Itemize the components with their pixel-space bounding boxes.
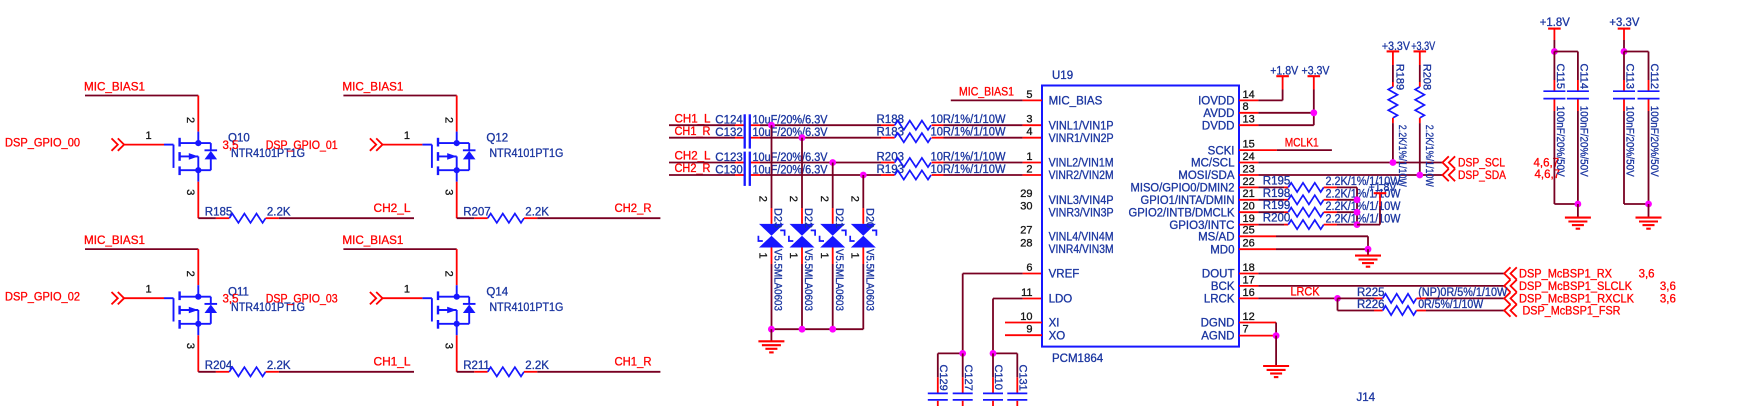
transistor Q14 NTR4101PT1G <box>422 285 563 335</box>
svg-text:17: 17 <box>1243 274 1255 286</box>
svg-text:MCLK1: MCLK1 <box>1285 138 1319 150</box>
wire LRCK pin 16 <box>1239 297 1338 299</box>
wire D23 to ground rail <box>771 248 773 330</box>
wire MC/SCL pin 24 to DSP_SCL <box>1239 162 1443 164</box>
svg-text:CH2_L: CH2_L <box>675 151 712 163</box>
svg-text:CH1_L: CH1_L <box>675 113 712 125</box>
pin 2 label Q11 <box>184 271 196 277</box>
svg-text:7: 7 <box>1243 324 1249 336</box>
svg-text:100nF/20%/50V: 100nF/20%/50V <box>1648 106 1660 178</box>
svg-text:R208: R208 <box>1420 64 1432 90</box>
net label CH2_R <box>615 203 652 215</box>
svg-text:5: 5 <box>1026 89 1032 101</box>
svg-text:20: 20 <box>1243 201 1255 213</box>
svg-text:26: 26 <box>1243 238 1255 250</box>
pin 18 DOUT <box>1202 262 1255 281</box>
node R189/SCL <box>1390 159 1397 166</box>
svg-text:V5.5MLA0603: V5.5MLA0603 <box>802 249 814 311</box>
wire drop to varistor D20 <box>862 175 864 224</box>
svg-text:DVDD: DVDD <box>1202 120 1235 132</box>
pin 3 label Q10 <box>184 189 196 195</box>
resistor R195 2.2K <box>1239 175 1401 192</box>
wire CH2_L to cap C123 <box>669 162 745 164</box>
pin 21 GPIO1/INTA/DMIN <box>1141 188 1255 207</box>
pin 12 DGND <box>1201 311 1255 330</box>
wire gate Q14 <box>383 297 423 299</box>
svg-text:PCM1864: PCM1864 <box>1052 353 1104 365</box>
capacitor C115 100nF <box>1543 52 1566 205</box>
pin 2 label Q14 <box>443 271 455 277</box>
net label MCLK1 <box>1285 138 1319 150</box>
pin 2 label D21 <box>818 196 830 202</box>
wire Q14 source down <box>457 335 488 372</box>
pin 22 MISO/GPIO0/DMIN2 <box>1131 176 1255 195</box>
svg-text:14: 14 <box>1243 89 1255 101</box>
off-page connector DSP_SCL <box>1443 156 1560 169</box>
wire R203 to IC pin <box>932 162 1042 164</box>
svg-text:D23: D23 <box>772 208 784 228</box>
svg-text:D20: D20 <box>864 208 876 228</box>
pin 3 VINL1/VIN1P <box>1026 114 1114 133</box>
svg-text:10R/1%/1/10W: 10R/1%/1/10W <box>931 114 1006 126</box>
net label DSP_GPIO_02 <box>5 291 80 303</box>
wire Q10 source down <box>198 182 229 219</box>
svg-text:DSP_McBSP1_RX: DSP_McBSP1_RX <box>1519 268 1612 280</box>
wire branch to C114 <box>1554 51 1578 53</box>
pin 10 XI <box>1020 311 1059 330</box>
svg-text:2: 2 <box>443 117 455 123</box>
svg-text:XO: XO <box>1049 330 1066 342</box>
pin 2 label Q10 <box>184 117 196 123</box>
wire D22 to ground rail <box>801 248 803 330</box>
svg-text:R198: R198 <box>1263 188 1291 200</box>
capacitor plates C123/C130 <box>745 152 750 186</box>
wire MIC_BIAS pin 5 <box>951 99 1042 101</box>
svg-text:LRCK: LRCK <box>1291 287 1320 299</box>
svg-text:11: 11 <box>1021 287 1032 299</box>
wire Q12 source down <box>457 182 488 219</box>
svg-text:27: 27 <box>1020 225 1032 237</box>
svg-text:MIC_BIAS1: MIC_BIAS1 <box>342 235 403 247</box>
svg-text:CH1_R: CH1_R <box>675 126 711 138</box>
svg-text:VREF: VREF <box>1049 269 1080 281</box>
wire jumper C131 <box>993 352 1017 354</box>
resistor R200 2.2K <box>1239 213 1401 230</box>
svg-text:R225: R225 <box>1357 287 1385 299</box>
svg-text:V5.5MLA0603: V5.5MLA0603 <box>833 249 845 311</box>
node junction on CH1_R <box>799 134 806 141</box>
wire IOVDD pin 14 <box>1239 99 1283 101</box>
wire C130 to resistor R193 <box>750 174 895 176</box>
svg-text:15: 15 <box>1243 139 1255 151</box>
varistor D21 V5.5MLA0603 <box>820 208 846 311</box>
svg-text:6: 6 <box>1026 262 1032 274</box>
pin 24 MC/SCL <box>1191 151 1255 170</box>
pin 3 label Q11 <box>184 343 196 349</box>
svg-text:R195: R195 <box>1263 175 1291 187</box>
svg-text:MS/AD: MS/AD <box>1198 232 1234 244</box>
node pullups 20 <box>1354 209 1361 216</box>
varistor D22 V5.5MLA0603 <box>789 208 815 311</box>
off-page connector DSP_McBSP1_SLCLK <box>1504 280 1676 293</box>
svg-text:C131: C131 <box>1017 365 1029 391</box>
ground (varistor rail) <box>758 329 784 352</box>
svg-text:CH2_R: CH2_R <box>615 203 652 215</box>
svg-text:DSP_McBSP1_FSR: DSP_McBSP1_FSR <box>1523 305 1621 317</box>
svg-text:1: 1 <box>146 284 152 296</box>
node pullups 19 <box>1354 221 1361 228</box>
svg-text:Q12: Q12 <box>486 133 508 145</box>
node pullups 21 <box>1354 196 1361 203</box>
ground (C112) <box>1636 204 1662 229</box>
wire XO stub <box>1005 334 1042 336</box>
capacitor C127 <box>953 353 974 406</box>
svg-text:2.2K: 2.2K <box>267 207 291 219</box>
svg-text:2.2K/1%/1/10W: 2.2K/1%/1/10W <box>1423 125 1435 187</box>
svg-text:1: 1 <box>849 253 861 259</box>
svg-text:2: 2 <box>757 196 769 202</box>
net label CH2_L (input) <box>675 151 712 163</box>
wire D20 to ground rail <box>862 248 864 330</box>
varistor D20 V5.5MLA0603 <box>850 208 876 311</box>
wire CH1_R to cap C132 <box>669 137 745 139</box>
transistor Q11 NTR4101PT1G <box>164 285 305 335</box>
svg-text:NTR4101PT1G: NTR4101PT1G <box>489 302 563 314</box>
ground (AGND) <box>1263 336 1289 378</box>
pin 15 SCKI <box>1208 139 1255 158</box>
wire R188 to IC pin <box>932 124 1042 126</box>
svg-text:3,6: 3,6 <box>1660 281 1676 293</box>
svg-text:C112: C112 <box>1648 64 1660 89</box>
pin 17 BCK <box>1211 274 1255 293</box>
svg-text:3,6: 3,6 <box>1639 268 1655 280</box>
capacitor C130 10uF label <box>715 164 828 176</box>
svg-text:CH1_L: CH1_L <box>374 357 412 369</box>
pin 30 VINR3/VIN3P <box>1020 201 1114 220</box>
resistor R226 0R <box>1338 299 1505 315</box>
varistor D23 V5.5MLA0603 <box>758 208 784 311</box>
op-amp/IC U19 PCM1864 body <box>1042 70 1239 365</box>
svg-text:V5.5MLA0603: V5.5MLA0603 <box>772 249 784 311</box>
svg-text:NTR4101PT1G: NTR4101PT1G <box>489 148 563 160</box>
wire LRCK branch down <box>1337 298 1339 310</box>
net label CH2_R (input) <box>675 163 711 175</box>
svg-text:U19: U19 <box>1052 70 1073 82</box>
pin 2 label D22 <box>787 196 799 202</box>
off-page connector DSP_SDA <box>1443 169 1561 182</box>
svg-text:3: 3 <box>184 189 196 195</box>
wire VREF pin 6 <box>963 274 1042 354</box>
resistor R225 (NP)0R <box>1338 287 1508 303</box>
svg-text:+3.3V: +3.3V <box>1609 17 1639 29</box>
pin 1 label D23 <box>757 253 769 259</box>
pin 2 label D23 <box>757 196 769 202</box>
pin 2 label D20 <box>849 196 861 202</box>
svg-text:C115: C115 <box>1554 64 1566 89</box>
net label DSP_GPIO_03 with page refs 3,5 <box>223 294 338 306</box>
svg-text:2: 2 <box>184 271 196 277</box>
resistor R203 10R <box>877 151 1006 167</box>
net label LRCK <box>1291 287 1320 299</box>
pin 9 XO <box>1026 324 1065 343</box>
wire gate Q10 <box>124 144 164 146</box>
pin 23 MOSI/SDA <box>1178 163 1254 182</box>
svg-text:V5.5MLA0603: V5.5MLA0603 <box>864 249 876 311</box>
svg-text:4: 4 <box>1026 126 1032 138</box>
wire C132 to resistor R183 <box>750 137 895 139</box>
node +1.8V split <box>1551 48 1558 55</box>
node LDO caps <box>990 350 997 357</box>
svg-text:C123: C123 <box>715 152 743 164</box>
pin 1 label D21 <box>818 253 830 259</box>
svg-text:3: 3 <box>1026 114 1032 126</box>
node ground join C114 <box>1575 201 1582 208</box>
svg-text:SCKI: SCKI <box>1208 145 1235 157</box>
node AVDD/+3.3V <box>1310 109 1317 116</box>
node VREF caps <box>959 350 966 357</box>
svg-text:CH1_R: CH1_R <box>615 357 652 369</box>
wire MIC_BIAS1 to Q11 drain <box>85 249 198 285</box>
pin 13 DVDD <box>1202 114 1255 133</box>
svg-text:R189: R189 <box>1393 64 1405 90</box>
pin 1 label Q14 <box>404 284 410 296</box>
svg-text:2: 2 <box>787 196 799 202</box>
svg-text:2.2K: 2.2K <box>267 360 291 372</box>
svg-text:1: 1 <box>818 253 830 259</box>
transistor Q10 NTR4101PT1G <box>164 132 305 182</box>
power +3.3V (AVDD/DVDD) <box>1302 65 1330 125</box>
node junction on CH2_L <box>829 159 836 166</box>
wire to CH2_L <box>266 217 414 219</box>
capacitor C129 <box>928 353 949 406</box>
pin 4 VINR1/VIN2P <box>1026 126 1114 145</box>
svg-text:0R/5%/1/10W: 0R/5%/1/10W <box>1418 299 1483 311</box>
off-page connector DSP_McBSP1_FSR <box>1504 304 1620 317</box>
wire DGND pin 12 <box>1239 323 1276 336</box>
svg-text:1: 1 <box>404 284 410 296</box>
svg-text:1: 1 <box>404 130 410 142</box>
pin 11 LDO <box>1021 287 1072 306</box>
svg-text:VINL2/VIN1M: VINL2/VIN1M <box>1049 158 1114 170</box>
pin 6 VREF <box>1026 262 1079 281</box>
resistor R207 2.2K <box>463 207 549 223</box>
net label CH1_R <box>615 357 652 369</box>
svg-text:25: 25 <box>1243 225 1255 237</box>
wire MD0 pin 26 <box>1239 248 1368 250</box>
capacitor plates C124/C132 <box>745 114 750 148</box>
resistor R211 2.2K <box>463 360 549 376</box>
power +3.3V (R208) <box>1411 41 1435 53</box>
pin 3 label Q14 <box>443 343 455 349</box>
svg-text:3,5: 3,5 <box>223 140 239 152</box>
svg-text:MIC_BIAS1: MIC_BIAS1 <box>84 235 145 247</box>
resistor R193 10R <box>877 164 1006 180</box>
net label MIC_BIAS1 (pin5) <box>959 86 1014 98</box>
wire R183 to IC pin <box>932 137 1042 139</box>
svg-text:1: 1 <box>787 253 799 259</box>
svg-text:R200: R200 <box>1263 213 1291 225</box>
wire XI stub <box>1005 322 1042 324</box>
capacitor C114 100nF <box>1567 52 1590 205</box>
wire to CH1_L <box>266 371 414 373</box>
wire MOSI/SDA pin 23 to DSP_SDA <box>1239 174 1443 176</box>
svg-text:MISO/GPIO0/DMIN2: MISO/GPIO0/DMIN2 <box>1131 183 1235 195</box>
svg-text:DSP_McBSP1_SLCLK: DSP_McBSP1_SLCLK <box>1519 281 1632 293</box>
wire CH2_R to cap C130 <box>669 174 745 176</box>
wire Q11 source down <box>198 335 229 372</box>
capacitor C112 100nF <box>1638 52 1661 205</box>
wire DOUT pin 18 to DSP_McBSP1_RX <box>1239 273 1504 275</box>
svg-text:R199: R199 <box>1263 200 1291 212</box>
svg-text:100nF/20%/50V: 100nF/20%/50V <box>1554 106 1566 178</box>
svg-text:1: 1 <box>146 130 152 142</box>
svg-text:2: 2 <box>443 271 455 277</box>
pin 8 AVDD <box>1203 101 1248 120</box>
pin 1 label D22 <box>787 253 799 259</box>
net label DSP_GPIO_00 <box>5 138 80 150</box>
pin 1 label D20 <box>849 253 861 259</box>
svg-text:16: 16 <box>1243 287 1255 299</box>
svg-text:LDO: LDO <box>1049 294 1073 306</box>
svg-text:VINR4/VIN3M: VINR4/VIN3M <box>1049 244 1114 256</box>
svg-text:+1.8V: +1.8V <box>1540 17 1570 29</box>
svg-text:DSP_SCL: DSP_SCL <box>1458 157 1506 169</box>
svg-text:2: 2 <box>1026 163 1032 175</box>
svg-text:2.2K: 2.2K <box>525 207 549 219</box>
pin 1 label Q11 <box>146 284 152 296</box>
net label DSP_GPIO_01 with page refs 3,5 <box>223 140 338 152</box>
pin 14 IOVDD <box>1198 89 1255 108</box>
svg-text:(NP)0R/5%/1/10W: (NP)0R/5%/1/10W <box>1418 287 1507 299</box>
svg-text:2.2K/1%/1/10W: 2.2K/1%/1/10W <box>1326 213 1401 225</box>
wire BCK pin 17 to DSP_McBSP1_SLCLK <box>1239 285 1504 287</box>
wire LDO pin 11 <box>993 299 1042 354</box>
wire drop to varistor D23 <box>771 125 773 224</box>
svg-text:10R/1%/1/10W: 10R/1%/1/10W <box>931 164 1006 176</box>
net label CH1_L <box>374 357 412 369</box>
svg-text:18: 18 <box>1243 262 1255 274</box>
svg-text:VINL3/VIN4P: VINL3/VIN4P <box>1049 195 1114 207</box>
wire R208 to SDA <box>1419 123 1421 175</box>
svg-text:19: 19 <box>1243 213 1255 225</box>
svg-text:12: 12 <box>1243 311 1255 323</box>
wire to CH1_R <box>524 371 660 373</box>
svg-text:2: 2 <box>849 196 861 202</box>
svg-text:MIC_BIAS1: MIC_BIAS1 <box>84 81 145 93</box>
power +3.3V (R189) <box>1382 41 1410 53</box>
node ground join C112 <box>1645 201 1652 208</box>
svg-text:2: 2 <box>818 196 830 202</box>
svg-text:R226: R226 <box>1357 299 1385 311</box>
power +3.3V (bypass C113/C112) <box>1609 17 1639 52</box>
svg-text:GPIO2/INTB/DMCLK: GPIO2/INTB/DMCLK <box>1129 207 1235 219</box>
svg-text:C114: C114 <box>1578 64 1590 89</box>
pin 5 MIC_BIAS <box>1026 89 1102 108</box>
svg-text:IOVDD: IOVDD <box>1198 96 1234 108</box>
capacitor C113 100nF <box>1613 52 1636 205</box>
resistor R204 2.2K <box>205 360 291 376</box>
svg-text:1: 1 <box>1026 151 1032 163</box>
wire to CH2_R <box>524 217 660 219</box>
wire pullup collector vertical <box>1356 187 1358 224</box>
wire gate Q11 <box>124 297 164 299</box>
wire DVDD pin 13 <box>1239 124 1314 126</box>
svg-text:GPIO1/INTA/DMIN: GPIO1/INTA/DMIN <box>1141 195 1235 207</box>
node MS/MD0 <box>1365 246 1372 253</box>
pin 1 label Q10 <box>146 130 152 142</box>
off-page connector DSP_McBSP1_RX <box>1504 267 1654 280</box>
svg-text:3: 3 <box>184 343 196 349</box>
connector label J14 <box>1357 392 1376 404</box>
svg-text:3: 3 <box>443 343 455 349</box>
svg-text:C130: C130 <box>715 164 743 176</box>
svg-text:3,6: 3,6 <box>1660 293 1676 305</box>
node AGND/DGND <box>1273 332 1280 339</box>
wire AGND pin 7 <box>1239 335 1276 337</box>
net label MIC_BIAS1 (Q10) <box>84 81 145 93</box>
resistor R199 2.2K <box>1239 200 1401 217</box>
wire drop to varistor D21 <box>832 163 834 224</box>
node junction on CH1_L <box>768 122 775 129</box>
wire C123 to resistor R203 <box>750 162 895 164</box>
pin 28 VINR4/VIN3M <box>1020 237 1113 256</box>
power +1.8V (bypass C115/C114) <box>1540 17 1570 52</box>
svg-text:R185: R185 <box>205 207 233 219</box>
resistor R185 2.2K <box>205 207 291 223</box>
wire MS/AD pin 25 <box>1239 236 1368 249</box>
svg-text:LRCK: LRCK <box>1204 294 1235 306</box>
svg-text:C132: C132 <box>715 127 743 139</box>
svg-text:DOUT: DOUT <box>1202 269 1235 281</box>
svg-text:D21: D21 <box>833 208 845 228</box>
svg-text:Q14: Q14 <box>486 286 508 298</box>
svg-text:21: 21 <box>1243 188 1255 200</box>
svg-text:24: 24 <box>1243 151 1255 163</box>
off-page connector input Q10 gate <box>112 138 125 150</box>
svg-text:DSP_McBSP1_RXCLK: DSP_McBSP1_RXCLK <box>1519 293 1634 305</box>
svg-text:22: 22 <box>1243 176 1255 188</box>
resistor R208 2.2K pullup <box>1415 51 1435 187</box>
wire jumper C129 <box>938 352 963 354</box>
svg-text:J14: J14 <box>1357 392 1376 404</box>
node R208/SDA <box>1416 172 1423 179</box>
capacitor C123 10uF label <box>715 152 828 164</box>
svg-text:8: 8 <box>1243 101 1249 113</box>
svg-text:MD0: MD0 <box>1210 244 1234 256</box>
power +1.8V (pullups) <box>1357 182 1397 224</box>
svg-text:3: 3 <box>443 189 455 195</box>
svg-text:DSP_GPIO_01: DSP_GPIO_01 <box>266 140 338 152</box>
svg-text:100nF/20%/50V: 100nF/20%/50V <box>1578 106 1590 178</box>
svg-text:29: 29 <box>1020 188 1032 200</box>
pin 1 label Q12 <box>404 130 410 142</box>
wire AVDD pin 8 <box>1239 112 1314 114</box>
wire R189 to SCL <box>1392 123 1394 162</box>
wire R193 to IC pin <box>932 174 1042 176</box>
wire bottom rail C113/C112 <box>1624 203 1649 205</box>
off-page connector input Q14 gate <box>370 292 383 304</box>
wire D21 to ground rail <box>832 248 834 330</box>
pin 27 VINL4/VIN4M <box>1020 225 1113 244</box>
pin 26 MD0 <box>1210 238 1255 257</box>
power +1.8V (IOVDD) <box>1270 65 1298 100</box>
resistor R183 10R <box>877 127 1006 143</box>
net label MIC_BIAS1 (Q12) <box>342 81 403 93</box>
node rail junctions <box>768 326 836 333</box>
resistor R189 2.2K pullup <box>1388 51 1408 187</box>
svg-text:MIC_BIAS: MIC_BIAS <box>1049 96 1103 108</box>
wire C124 to resistor R188 <box>750 124 895 126</box>
